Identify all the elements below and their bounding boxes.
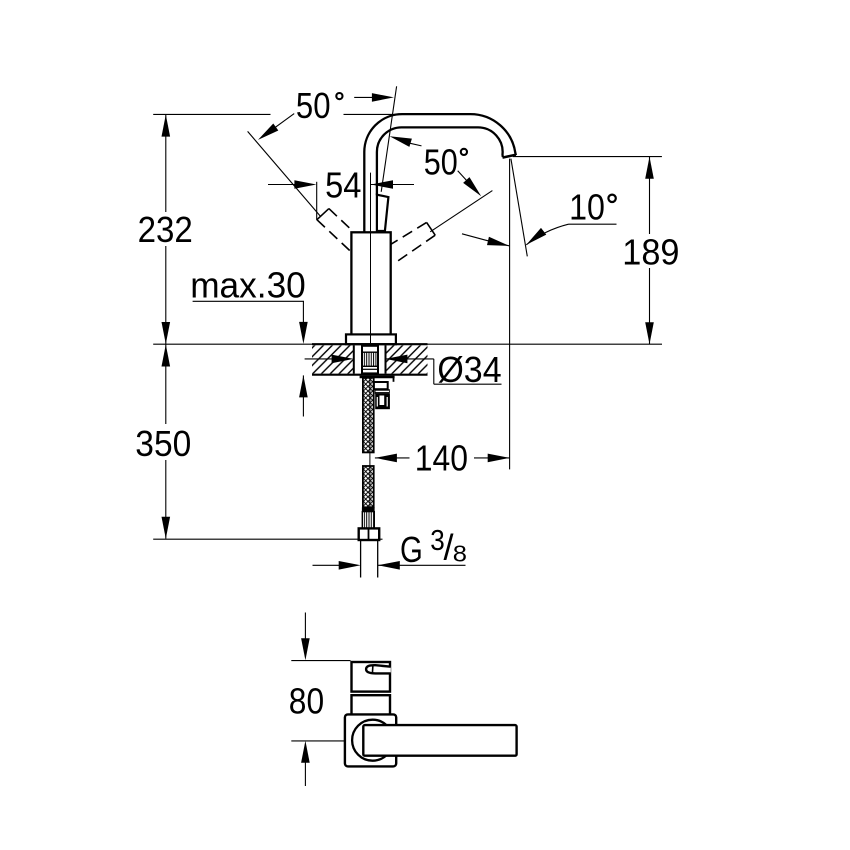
max.30 underline (193, 300, 304, 302)
dimension 140 line right (474, 457, 510, 459)
hose corrugated collar (362, 512, 374, 529)
80 extension line upper (291, 660, 350, 662)
washer under counter (360, 376, 395, 379)
braided supply hose lower segment (363, 466, 374, 507)
dimension 140 line left (375, 457, 410, 459)
80 dimension line lower (304, 762, 306, 786)
dimension 54 right line (371, 184, 414, 186)
max.30 leader lower (302, 375, 304, 416)
80 extension line lower (291, 740, 345, 742)
left handle tilted axis line (50 deg left) (248, 131, 321, 216)
top view lower body section (352, 695, 391, 716)
80 dimension line upper (304, 613, 306, 641)
top view upper body section (352, 662, 391, 692)
svg-text:80: 80 (289, 680, 324, 721)
svg-text:G: G (400, 529, 423, 570)
svg-text:max.30: max.30 (190, 264, 306, 305)
dimension O34 arrows (305, 358, 333, 360)
svg-text:50: 50 (296, 85, 331, 126)
lever in closed position (377, 195, 389, 231)
top view base plate (345, 714, 396, 766)
svg-text:140: 140 (415, 438, 468, 479)
hose break centre line (369, 379, 371, 507)
dimension 189 extension line top (513, 156, 662, 158)
svg-text:189: 189 (622, 231, 679, 272)
side outlet fitting (374, 382, 390, 409)
dimension G3/8 arrows (313, 564, 340, 566)
base flange (346, 334, 396, 344)
svg-text:10: 10 (569, 186, 605, 227)
50 left leader to tilted handle (262, 114, 294, 137)
connection tube G3/8 (360, 540, 362, 578)
right handle dashed outline (391, 222, 435, 264)
mounting nut in hole (362, 346, 379, 374)
left handle dashed outline (317, 209, 352, 253)
water stream vertical extension line (140 ref) (509, 159, 511, 470)
dimension 232 extension line top (153, 113, 270, 115)
dimension 350 bottom extension line (153, 538, 358, 540)
top view cartridge circle (352, 720, 393, 761)
svg-text:Ø34: Ø34 (437, 349, 501, 390)
svg-text:350: 350 (135, 423, 191, 464)
body centre extension line (370, 173, 372, 345)
counter top line (153, 343, 662, 345)
svg-text:50: 50 (424, 141, 458, 182)
counter slab hatch right (386, 345, 428, 373)
top view lever handle (363, 725, 516, 756)
spout tube inner wall (377, 127, 503, 195)
O34 label leader box (433, 359, 435, 384)
dimension 232 line (165, 115, 167, 212)
10 deg tilted stream line (511, 159, 527, 257)
hex connection nut (359, 528, 380, 540)
counter hole right edge (385, 345, 387, 373)
50 right leader to lever axis (408, 143, 422, 146)
spout tube outer wall (364, 114, 516, 232)
svg-text:232: 232 (138, 209, 193, 250)
dimension 350 line (165, 344, 167, 424)
50 right leader to tilted handle (458, 171, 468, 182)
spout tip cut face (503, 155, 516, 158)
braided supply hose upper segment (363, 378, 374, 453)
10 deg arc with arrow at stream line (462, 234, 509, 246)
svg-text:8: 8 (453, 541, 467, 567)
dimension 189 line (649, 157, 651, 234)
dimension 54 left line (268, 184, 298, 186)
faucet body (351, 232, 390, 335)
counter slab hatch left (312, 345, 354, 373)
max.30 leader upper (302, 301, 304, 325)
counter hole left edge (353, 345, 355, 373)
right handle tilted axis line (50 deg right) (430, 191, 492, 232)
svg-text:54: 54 (325, 165, 361, 206)
counter slab bottom line (312, 374, 428, 376)
50 left leader to lever axis (354, 96, 376, 98)
dimension 54 extension line (316, 182, 318, 220)
hose ferrule (362, 507, 375, 511)
lever closed-position axis line (tilted ~8 deg) (381, 86, 396, 192)
top view spout tip detail (366, 665, 391, 673)
10 deg leader curve (526, 224, 568, 245)
10 deg underline (569, 223, 617, 225)
